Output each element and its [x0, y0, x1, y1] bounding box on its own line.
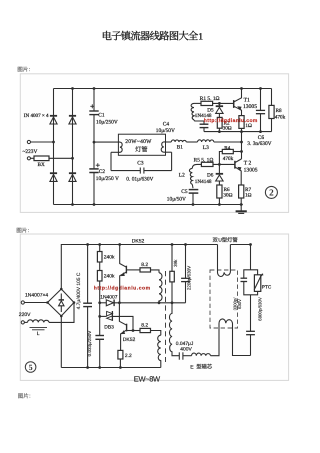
- junction node R4 tap: [240, 150, 243, 153]
- svg-text:BX: BX: [38, 162, 45, 168]
- svg-text:10μ/250V: 10μ/250V: [96, 120, 118, 126]
- diac DB3: [100, 311, 133, 331]
- svg-text:C3: C3: [137, 161, 144, 167]
- svg-text:DK52: DK52: [123, 337, 136, 343]
- capacitor C4 10u/50V: [156, 121, 209, 134]
- diode D2 (bridge, upper-right): [69, 116, 76, 124]
- wire lamp right-top pin: [166, 141, 172, 143]
- resistor R 240k (lower): [97, 271, 115, 336]
- wire bottom rail circuit2: [61, 367, 161, 369]
- inductor L2 (T2 feedback): [179, 164, 202, 188]
- junction node input-column2: [71, 157, 74, 160]
- wire top rail circuit2: [61, 245, 217, 290]
- junction node divider-diode: [98, 301, 101, 304]
- svg-text:R5 5. 1Ω: R5 5. 1Ω: [194, 158, 214, 164]
- svg-text:C4: C4: [163, 121, 170, 127]
- wire fuse to column2: [49, 157, 73, 159]
- transformer feedback winding (lower): [158, 335, 161, 367]
- junction node lamp-midpoint: [240, 141, 243, 144]
- resistor 8.2 (lower base): [127, 322, 161, 335]
- svg-text:R1 5. 1Ω: R1 5. 1Ω: [200, 96, 220, 102]
- label 220V: [19, 312, 31, 318]
- wire midpoint down to T2: [241, 132, 243, 159]
- svg-text:5: 5: [29, 363, 33, 372]
- bridge rectifier 1N4007x4: [25, 288, 75, 318]
- fuse BX: [34, 156, 49, 168]
- transistor T2 13005: [235, 159, 258, 185]
- svg-text::: :: [29, 67, 30, 73]
- resistor R3 1ohm: [239, 116, 252, 132]
- svg-text:http://dgdianlu.com: http://dgdianlu.com: [94, 286, 151, 292]
- terminal AC input N circuit2: [21, 321, 27, 324]
- junction dots midpoint circuit2: [118, 301, 173, 304]
- svg-text:30Ω: 30Ω: [223, 126, 232, 132]
- junction node Q2 base: [132, 329, 135, 332]
- capacitor C1 10u/250V: [89, 89, 118, 143]
- svg-text:20W~40W: 20W~40W: [125, 139, 152, 145]
- svg-text:470k: 470k: [275, 114, 286, 120]
- wire bridge column 2: [72, 89, 74, 205]
- terminal AC neutral input: [27, 157, 34, 160]
- svg-text:10μ/50V: 10μ/50V: [167, 197, 186, 203]
- inductor B1: [171, 140, 186, 150]
- svg-text:EW~8W: EW~8W: [134, 374, 161, 383]
- svg-text:0.047μJ: 0.047μJ: [176, 341, 194, 347]
- diode D4 (bridge, lower-right): [69, 173, 76, 181]
- ground symbol: [236, 205, 247, 214]
- caption 图片: (second): [17, 228, 29, 234]
- transformer winding B2 (T1 feedback): [191, 103, 204, 121]
- transistor T1 13005: [234, 89, 257, 116]
- terminal AC line input: [27, 140, 53, 143]
- capacitor C6 3.3n/630V: [247, 89, 271, 147]
- svg-text:1N4007×4: 1N4007×4: [25, 292, 48, 298]
- svg-text:10μ/50V: 10μ/50V: [156, 128, 175, 134]
- resistor R7 1ohm: [239, 185, 252, 205]
- svg-text:U: U: [218, 238, 222, 244]
- svg-text:L: L: [37, 331, 40, 337]
- junction node C1-C2 midpoint: [93, 141, 96, 144]
- svg-text:240k: 240k: [104, 255, 115, 261]
- transformer primary winding (upper): [159, 273, 162, 303]
- capacitor 4.7u/400V: [76, 245, 92, 368]
- svg-text:30Ω: 30Ω: [223, 192, 232, 198]
- inductor L3: [198, 140, 214, 151]
- svg-text:L2: L2: [179, 173, 185, 179]
- svg-text:R8: R8: [276, 108, 282, 114]
- svg-text:2: 2: [269, 188, 274, 198]
- wire top rail right segment: [230, 244, 250, 246]
- junction dots top rail circuit2: [86, 243, 252, 246]
- svg-text:2200p/630V: 2200p/630V: [187, 266, 192, 290]
- lamp filament left: [118, 142, 122, 152]
- lamp tube double-U (dashed box): [210, 270, 238, 328]
- svg-text:4.7μ/400V 105 C: 4.7μ/400V 105 C: [76, 272, 82, 309]
- svg-text:630V: 630V: [237, 299, 242, 309]
- resistor R 240k (upper): [97, 245, 115, 271]
- resistor R5 5.1ohm: [194, 158, 235, 167]
- svg-text:C5: C5: [181, 189, 188, 195]
- thermistor PTC: [251, 270, 272, 295]
- svg-text:D6: D6: [207, 172, 214, 178]
- wire L3 to midpoint column: [214, 141, 242, 143]
- svg-text:IN 4007 × 4: IN 4007 × 4: [24, 113, 49, 119]
- wire B1-L3: [186, 141, 197, 143]
- transistor Q2 DK52 (lower): [119, 303, 135, 351]
- junction dots top rail: [71, 87, 262, 90]
- figure number 2 circled: [265, 186, 277, 198]
- svg-text::: :: [28, 228, 29, 234]
- wire top rail (+) circuit1: [54, 88, 272, 90]
- junction node base T2: [218, 163, 221, 166]
- capacitor 0.047u/400V: [176, 341, 194, 360]
- diode D6 1N4148: [195, 164, 223, 185]
- watermark red url circuit1: [204, 118, 258, 124]
- caption 图片: (first): [18, 67, 30, 73]
- svg-text:1Ω: 1Ω: [245, 192, 252, 198]
- lamp tube 20W-40W box: [118, 134, 165, 155]
- diode D3 (bridge, lower-left): [50, 173, 57, 181]
- svg-text:C2: C2: [99, 169, 106, 175]
- figure number 5 circled: [25, 362, 36, 373]
- image frame 2: [20, 234, 288, 380]
- svg-text:~223V: ~223V: [23, 149, 38, 155]
- resistor 8.2 (upper base): [126, 262, 159, 273]
- junction dots bottom rail circuit2: [86, 366, 122, 369]
- svg-text:39k: 39k: [173, 259, 178, 267]
- capacitor 0.033u/250V: [87, 331, 104, 368]
- capacitor C5 10u/50V: [167, 189, 199, 205]
- svg-text:L3: L3: [203, 145, 209, 151]
- svg-text:220V: 220V: [19, 312, 31, 318]
- svg-text:DK52: DK52: [132, 239, 145, 245]
- capacitor C2 10u/250V: [89, 142, 119, 204]
- label IN4007x4: [24, 113, 49, 119]
- terminal AC input L circuit2: [21, 301, 47, 304]
- balance inductor E-core: [190, 353, 212, 370]
- lamp top filament: [217, 245, 230, 277]
- svg-text:1N4148: 1N4148: [195, 179, 212, 185]
- junction dots midpoint rail: [218, 130, 262, 133]
- svg-text:B1: B1: [177, 144, 183, 150]
- label 双U型灯管: [213, 237, 238, 243]
- wire bottom rail circuit1: [54, 204, 243, 206]
- diode D5 1N4148: [195, 103, 223, 119]
- svg-text:DB3: DB3: [104, 324, 114, 330]
- capacitor 2200p/630V: [181, 245, 192, 303]
- watermark red url circuit2: [94, 286, 151, 292]
- diode 1N4007 (series): [100, 294, 117, 306]
- svg-text:400V: 400V: [180, 347, 192, 353]
- svg-text:PTC: PTC: [262, 285, 272, 290]
- svg-text:1N4007: 1N4007: [100, 294, 117, 300]
- svg-text:3. 3n/630V: 3. 3n/630V: [247, 141, 271, 147]
- svg-text:R4: R4: [224, 145, 230, 151]
- wire E-core to lamp pin: [211, 328, 220, 356]
- resistor R6 30ohm: [217, 185, 233, 205]
- wire PTC branch top: [250, 245, 252, 270]
- transformer secondary winding: [169, 303, 179, 356]
- svg-text:8.2: 8.2: [141, 262, 148, 268]
- wire midpoint node circuit2: [100, 302, 186, 304]
- svg-text:2.2: 2.2: [125, 353, 132, 359]
- svg-text:6800p/630V: 6800p/630V: [258, 297, 263, 321]
- lamp filament right: [161, 142, 165, 152]
- svg-text:240k: 240k: [104, 274, 115, 280]
- label ~223V: [23, 149, 38, 155]
- svg-text:470k: 470k: [223, 156, 234, 162]
- resistor 2.2 (emitter): [118, 350, 132, 367]
- svg-text:E: E: [190, 364, 195, 370]
- svg-text:13005: 13005: [243, 104, 257, 110]
- wire bridge column 1: [53, 89, 55, 205]
- wire midpoint rail circuit1: [204, 131, 272, 133]
- transistor Q1 DK52 (upper): [120, 239, 145, 303]
- resistor R1 5.1ohm: [194, 96, 233, 106]
- junction node divider-diac: [98, 315, 101, 318]
- svg-text:http://dgdianlu.com: http://dgdianlu.com: [204, 118, 258, 124]
- label EW-8W: [134, 374, 161, 383]
- svg-text:10μ/250 V: 10μ/250 V: [96, 176, 119, 182]
- caption 图片: (third): [18, 393, 30, 399]
- junction dots bottom rail: [71, 203, 243, 206]
- inductor L (line filter): [28, 320, 50, 337]
- wire midpoint to lamp: [94, 141, 118, 143]
- resistor 39k: [170, 245, 178, 303]
- lamp bottom filament: [219, 319, 251, 356]
- svg-text::: :: [29, 393, 30, 399]
- svg-text:1: 1: [198, 32, 203, 43]
- svg-text:13005: 13005: [244, 167, 258, 173]
- image frame 1: [20, 74, 288, 213]
- svg-text:8.2: 8.2: [141, 322, 148, 328]
- svg-text:T1: T1: [244, 97, 250, 103]
- capacitor 6800p/630V: [246, 295, 262, 356]
- svg-text:C1: C1: [98, 113, 105, 119]
- resistor R4 470k: [219, 145, 241, 164]
- svg-text:0. 01μ/630V: 0. 01μ/630V: [126, 176, 153, 182]
- transformer core (dashed): [165, 271, 167, 362]
- svg-text:0.033μ/250V: 0.033μ/250V: [87, 331, 92, 357]
- junction node input-column1: [52, 141, 55, 144]
- diode D1 (bridge, upper-left): [50, 116, 57, 124]
- document title 电子镇流器线路图大全 1: [103, 31, 203, 43]
- svg-text:T 2: T 2: [244, 161, 252, 167]
- wire L to bridge: [49, 303, 74, 323]
- resistor R2 30ohm: [217, 117, 231, 131]
- junction node base T1 / D5: [218, 102, 221, 105]
- capacitor 3300p/630V: [233, 270, 251, 311]
- capacitor C3 0.01u/630V: [111, 152, 172, 182]
- resistor R8 470k: [269, 89, 286, 132]
- wire bridge negative to bottom rail: [60, 316, 62, 368]
